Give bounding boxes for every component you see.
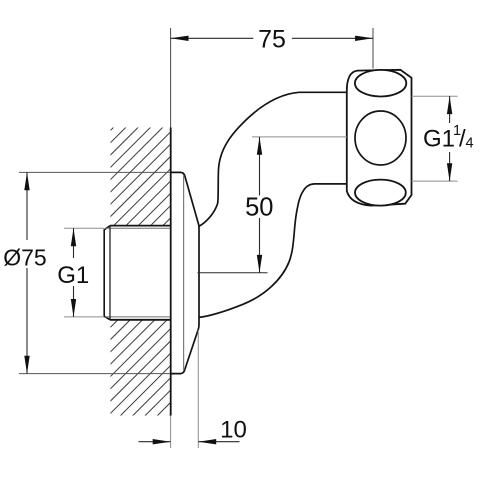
svg-text:G1: G1: [423, 126, 455, 153]
dim 75 top: [372, 28, 374, 69]
svg-text:10: 10: [220, 417, 247, 444]
escutcheon: [171, 172, 200, 373]
wall surface line (also left extension of 75 dim): [170, 28, 172, 128]
svg-text:Ø75: Ø75: [3, 245, 46, 271]
S pipe upper edge: [199, 92, 347, 226]
svg-text:4: 4: [466, 136, 474, 152]
dim O75 left: [19, 171, 170, 173]
union bottom ellipse: [355, 180, 406, 206]
threaded pipe G1 in wall: [104, 226, 110, 320]
union middle circle: [355, 111, 406, 165]
dim 50 middle: [252, 136, 347, 138]
thread root lines: [105, 227, 170, 229]
svg-text:G1: G1: [57, 262, 89, 289]
dim G1 1/4 right: [412, 95, 458, 97]
S pipe lower edge: [199, 184, 347, 318]
thread chamfer line: [109, 226, 111, 320]
union top ellipse: [355, 70, 406, 97]
svg-text:75: 75: [258, 25, 286, 53]
dim G1 left inner: [64, 227, 104, 229]
escutcheon rim silhouette: [183, 175, 185, 371]
svg-text:50: 50: [245, 194, 273, 222]
dim 10 bottom: [170, 416, 172, 449]
union nut body: [347, 70, 412, 206]
